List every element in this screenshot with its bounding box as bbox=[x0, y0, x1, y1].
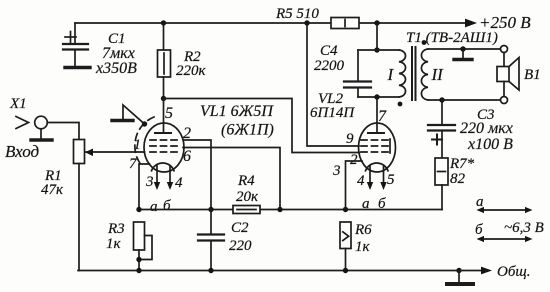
node cathode bus pin6 bbox=[277, 207, 282, 212]
svg-text:Общ.: Общ. bbox=[497, 264, 530, 280]
svg-text:82: 82 bbox=[450, 171, 466, 187]
node ground R3 bbox=[136, 268, 141, 273]
transformer T1 primary loop bbox=[358, 23, 399, 100]
svg-text:9: 9 bbox=[346, 131, 354, 147]
capacitor C1 bbox=[63, 23, 137, 77]
wire VL1 pin7 cathode bbox=[139, 164, 150, 210]
tube VL2 pin labels bbox=[332, 131, 395, 212]
ground common chassis bar bbox=[447, 271, 473, 285]
transformer T1 core bbox=[412, 47, 416, 100]
label T1 bbox=[406, 30, 498, 46]
svg-text:Х1: Х1 bbox=[9, 96, 27, 112]
ground C1 chassis bar bbox=[65, 66, 90, 69]
tube VL2 heater arrows bbox=[367, 166, 387, 190]
tube VL1 pin labels bbox=[129, 105, 191, 215]
svg-text:5: 5 bbox=[165, 105, 173, 122]
wire screen grid VL2 to rail bbox=[307, 23, 359, 146]
svg-text:3: 3 bbox=[145, 174, 154, 190]
op wire VL1 anode lead bbox=[155, 99, 171, 134]
svg-text:а: а bbox=[362, 196, 370, 212]
resistor R3 with tap bbox=[106, 221, 152, 271]
wire secondary bottom bbox=[428, 99, 501, 101]
svg-text:5: 5 bbox=[387, 172, 395, 188]
svg-text:R4: R4 bbox=[237, 173, 255, 189]
tube VL1 envelope bbox=[144, 123, 184, 172]
svg-text:х100 В: х100 В bbox=[467, 136, 513, 153]
node winding phase dot primary bbox=[398, 102, 403, 107]
svg-text:С4: С4 bbox=[320, 43, 338, 59]
tube VL2 anode lead bbox=[368, 97, 387, 133]
label input bbox=[5, 142, 40, 161]
potentiometer R1 bbox=[41, 140, 93, 271]
svg-text:б: б bbox=[475, 222, 483, 238]
node winding phase dot secondary bbox=[422, 40, 427, 45]
wire ground rail bbox=[78, 270, 459, 272]
capacitor C4 bbox=[314, 43, 371, 97]
wire top supply rail bbox=[75, 22, 465, 24]
resistor R7 bbox=[435, 156, 475, 210]
wire anode coupling to VL2 grid bbox=[164, 99, 360, 153]
node ground R6 bbox=[343, 268, 348, 273]
wire secondary top to speaker bbox=[428, 48, 501, 50]
wire VL1 grid pin1 from R1 wiper bbox=[86, 151, 145, 153]
tube VL2 envelope bbox=[359, 123, 396, 172]
node rail-T1 bbox=[374, 20, 379, 25]
svg-text:R3: R3 bbox=[107, 221, 125, 237]
wire VL1 pin6 to R4 right node bbox=[183, 148, 280, 210]
wire cathode bus bbox=[139, 209, 442, 211]
svg-text:а: а bbox=[150, 199, 158, 215]
node ground common bbox=[456, 268, 461, 273]
svg-text:2: 2 bbox=[350, 152, 358, 168]
node C3 junction bbox=[439, 97, 444, 102]
+250V arrow bbox=[465, 13, 531, 32]
svg-text:6: 6 bbox=[183, 148, 191, 165]
svg-text:II: II bbox=[431, 65, 445, 84]
svg-text:3: 3 bbox=[332, 163, 341, 179]
transformer T1 primary winding I bbox=[387, 50, 406, 97]
resistor R6 bbox=[340, 222, 372, 271]
node rail-screen bbox=[304, 20, 309, 25]
wire VL2 cathode pin3 bbox=[346, 161, 363, 210]
tube VL1 heater arrows bbox=[154, 166, 173, 190]
node rail-R2 bbox=[161, 20, 166, 25]
ground shield chassis bar bbox=[112, 119, 133, 122]
svg-text:220 мкх: 220 мкх bbox=[460, 120, 513, 137]
tube VL1 grids bbox=[150, 140, 178, 152]
svg-text:С2: С2 bbox=[231, 220, 249, 236]
node cathode bus C2 bbox=[208, 207, 213, 212]
svg-text:В1: В1 bbox=[524, 67, 541, 83]
svg-text:47к: 47к bbox=[41, 182, 64, 198]
label VL2 type bbox=[310, 91, 355, 121]
wire VL1 pin2 to C2 node bbox=[184, 140, 212, 210]
svg-text:20к: 20к bbox=[236, 189, 259, 205]
resistor R5 bbox=[275, 6, 359, 29]
capacitor C3 bbox=[428, 100, 513, 158]
svg-text:1к: 1к bbox=[355, 239, 371, 255]
svg-text:R6: R6 bbox=[354, 222, 372, 238]
connector X1 bbox=[9, 96, 79, 140]
svg-text:х350В: х350В bbox=[95, 60, 137, 77]
svg-text:R7*: R7* bbox=[449, 156, 475, 172]
svg-text:~6,3 В: ~6,3 В bbox=[504, 220, 544, 236]
wire common arrow bbox=[459, 264, 530, 280]
svg-text:220: 220 bbox=[229, 238, 252, 254]
capacitor C2 bbox=[198, 210, 252, 271]
node ground C2 bbox=[208, 268, 213, 273]
svg-text:(6Ж1П): (6Ж1П) bbox=[221, 122, 274, 139]
speaker B1 bbox=[497, 46, 541, 104]
node cathode bus R6 bbox=[343, 207, 348, 212]
node VL1 anode bbox=[161, 96, 166, 101]
ground X1 chassis bar bbox=[31, 138, 52, 141]
shield dashed arc VL1 bbox=[135, 117, 154, 166]
svg-text:б: б bbox=[163, 198, 171, 214]
node cathode bus R3 bbox=[136, 207, 141, 212]
svg-text:VL1 6Ж5П: VL1 6Ж5П bbox=[200, 103, 274, 120]
node secondary chassis tap bbox=[460, 46, 465, 58]
svg-text:Т1 (ТВ-2АШ1): Т1 (ТВ-2АШ1) bbox=[406, 30, 498, 46]
svg-text:2200: 2200 bbox=[314, 58, 345, 74]
svg-text:1к: 1к bbox=[106, 236, 122, 252]
tube VL2 grids bbox=[361, 139, 390, 153]
svg-text:4: 4 bbox=[175, 175, 183, 191]
svg-text:220к: 220к bbox=[176, 63, 207, 79]
label heater legend a bbox=[476, 194, 533, 213]
wire shield to chassis bbox=[123, 105, 145, 124]
ground secondary chassis bar bbox=[454, 58, 472, 61]
svg-text:Вход: Вход bbox=[5, 142, 40, 161]
node shield bbox=[142, 121, 147, 126]
resistor R2 bbox=[158, 23, 207, 99]
label VL1 type bbox=[200, 103, 274, 139]
svg-text:R5 510: R5 510 bbox=[275, 6, 319, 22]
tube VL2 cathode dome bbox=[366, 163, 389, 171]
svg-text:б: б bbox=[378, 196, 386, 212]
label heater legend b bbox=[475, 220, 544, 242]
transformer T1 secondary winding II bbox=[421, 49, 444, 100]
tube VL1 cathode dome bbox=[152, 163, 175, 171]
svg-text:6П14П: 6П14П bbox=[310, 105, 355, 121]
resistor R4 bbox=[233, 173, 260, 214]
svg-text:4: 4 bbox=[357, 173, 365, 189]
